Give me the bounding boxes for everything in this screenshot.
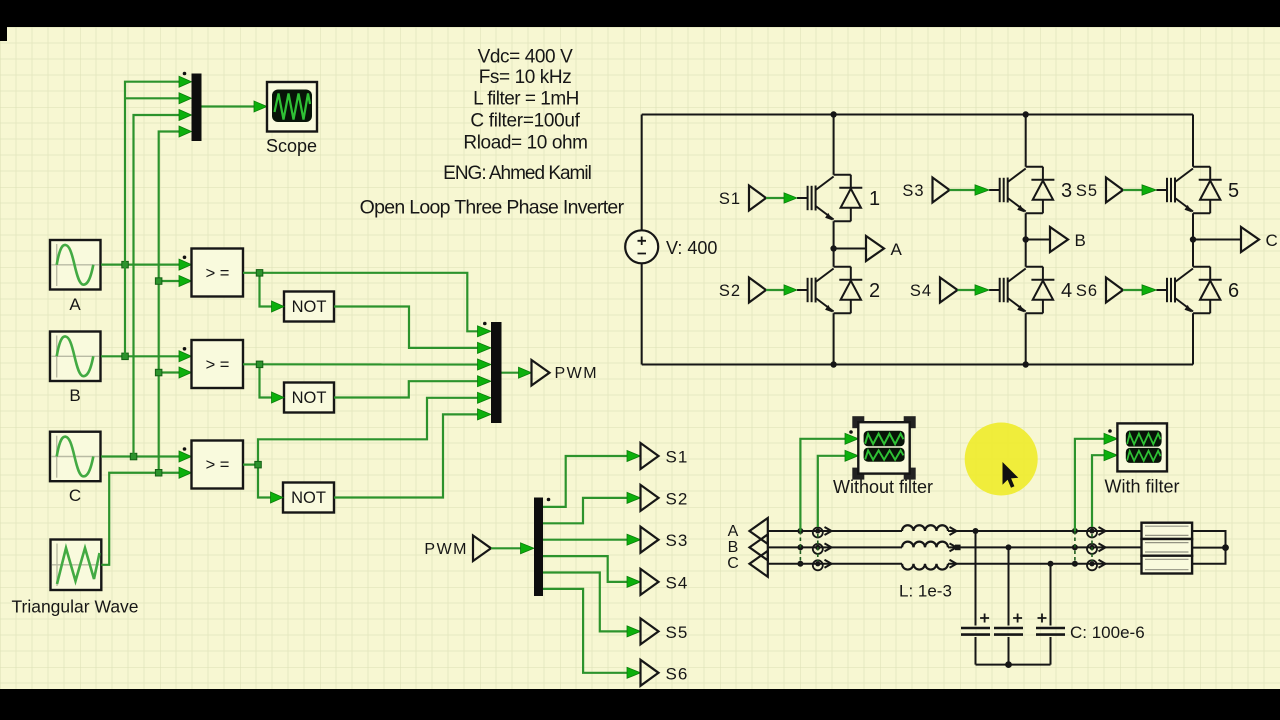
- arrowhead into demux: [521, 543, 535, 554]
- from tag S1: [749, 186, 766, 211]
- wire B output to comparator 2 input: [101, 355, 181, 357]
- ammeter probe circles right: [1087, 528, 1097, 571]
- inductor L phase A: [902, 525, 948, 531]
- capacitor C3: [1036, 628, 1065, 635]
- arrowhead into comparator 2 input 2: [179, 367, 192, 378]
- arrowhead into NOT 1: [272, 301, 285, 312]
- junction load star point: [1222, 544, 1229, 551]
- goto tag S6: [641, 660, 659, 686]
- arrowhead with-filter input 1: [1104, 433, 1117, 444]
- svg-text:NOT: NOT: [291, 489, 326, 507]
- arrowhead into scope: [254, 101, 267, 112]
- svg-text:B: B: [1075, 231, 1086, 250]
- wire demux port 5 to S5 tag: [543, 573, 628, 632]
- wire phase line C: [768, 563, 1142, 565]
- letterbox top bar: [0, 0, 1280, 27]
- DC voltage source V1: [625, 230, 658, 263]
- arrowhead S5 gate: [1142, 185, 1156, 195]
- wire comparator 1 output to mux2 input 1: [243, 273, 479, 332]
- svg-text:NOT: NOT: [292, 298, 327, 316]
- svg-text:S1: S1: [666, 448, 689, 467]
- letterbox bottom bar: [0, 689, 1280, 720]
- svg-text:Vdc= 400 V: Vdc= 400 V: [478, 47, 573, 68]
- svg-text:Rload= 10 ohm: Rload= 10 ohm: [463, 133, 587, 154]
- from tag S4: [940, 278, 958, 303]
- plus sign C3: [1038, 614, 1047, 623]
- wire load row B to star: [1192, 547, 1225, 549]
- measurement dot line B: [955, 545, 961, 551]
- svg-text:S6: S6: [1076, 282, 1098, 300]
- svg-text:S4: S4: [666, 573, 689, 592]
- wire S2 gate: [766, 289, 785, 291]
- triangular wave source block: [51, 540, 102, 591]
- arrowhead with-filter input 2: [1104, 450, 1117, 461]
- junction cap 1 tap: [973, 528, 979, 534]
- demux (gate signals): [534, 498, 543, 597]
- arrowhead into NOT 2: [272, 392, 285, 403]
- DC bus bottom rail: [642, 364, 1193, 366]
- wire source to bottom rail: [641, 263, 643, 364]
- wire probe to scope input 1 (without filter): [800, 439, 846, 531]
- svg-text:PWM: PWM: [555, 365, 599, 382]
- comparator 3 (relational operator): [192, 441, 244, 489]
- svg-text:> =: > =: [206, 264, 230, 282]
- wire node C to tag: [1193, 239, 1241, 241]
- svg-text:L filter = 1mH: L filter = 1mH: [473, 89, 579, 110]
- wire triangular wave output: [101, 473, 181, 565]
- wire S5 gate: [1123, 189, 1143, 191]
- sample time dot demux: [547, 498, 551, 502]
- transistor 1 (IGBT with diode): [797, 175, 862, 222]
- wire vertical A+B risers to mux inputs 1,2: [125, 82, 181, 357]
- svg-text:V: 400: V: 400: [666, 238, 717, 258]
- wire comparator 1 branch to NOT 1: [260, 273, 274, 307]
- inductor L phase B: [902, 542, 948, 548]
- wire PWM from tag to demux: [491, 547, 522, 549]
- wire S1 gate: [766, 197, 785, 199]
- arrowhead into NOT 3: [271, 492, 284, 503]
- wire cap 3 vertical: [1050, 564, 1052, 665]
- ammeter dashed link left: [817, 534, 819, 561]
- junction comparator 2 output: [256, 361, 263, 368]
- wire vertical C riser to mux input 3: [134, 115, 182, 457]
- wire node B to tag: [1026, 239, 1050, 241]
- svg-text:Fs= 10 kHz: Fs= 10 kHz: [479, 67, 572, 88]
- wire comparator 2 branch to NOT 2: [260, 364, 274, 397]
- from tag S3: [933, 178, 950, 203]
- arrowhead into comparator 1 input 1: [179, 259, 192, 270]
- svg-text:C filter=100uf: C filter=100uf: [470, 111, 580, 132]
- arrowhead S4 gate: [975, 285, 989, 295]
- svg-text:B: B: [728, 539, 739, 556]
- wire cap 1 vertical: [975, 531, 977, 665]
- capacitor C2: [994, 628, 1023, 635]
- comparator 1 (relational operator): [192, 249, 244, 297]
- wire comparator 3 branch to NOT 3: [258, 465, 272, 498]
- arrowhead scope input 1: [845, 433, 858, 444]
- wire load row C to star: [1192, 548, 1225, 564]
- sample time dot comparator 1: [183, 255, 187, 259]
- wire S4 gate: [958, 289, 977, 291]
- arrowhead into comparator 2 input 1: [179, 351, 192, 362]
- wire NOT 2 output to mux2 input 4: [334, 381, 479, 397]
- junction cap 3 tap: [1048, 561, 1054, 567]
- flow arrows left probes: [825, 527, 832, 568]
- svg-text:4: 4: [1061, 280, 1072, 302]
- sine source block A: [50, 240, 101, 290]
- wire cap 2 vertical: [1008, 547, 1010, 664]
- svg-text:A: A: [728, 523, 739, 540]
- wire demux port 4 to S4 tag: [543, 556, 628, 582]
- svg-text:With filter: With filter: [1104, 477, 1179, 497]
- transistor 5 (IGBT with diode): [1156, 167, 1221, 214]
- junction bottom rail leg 1: [830, 361, 836, 367]
- junction top rail leg 2: [1022, 111, 1028, 117]
- goto tag S1: [641, 443, 659, 469]
- arrowhead into S1 tag: [627, 451, 641, 462]
- junction triangle riser: [155, 470, 162, 477]
- sample time dot mux 2: [483, 322, 487, 326]
- highlight circle (cursor halo): [965, 423, 1038, 496]
- transistor 2 (IGBT with diode): [797, 267, 862, 314]
- from tag phase A (left pointing): [750, 518, 768, 544]
- svg-text:NOT: NOT: [292, 389, 327, 407]
- svg-text:> =: > =: [206, 456, 230, 474]
- node A junction: [830, 245, 836, 251]
- svg-text:S5: S5: [1076, 182, 1098, 200]
- wire capacitor star bus: [976, 664, 1051, 666]
- leg 1 vertical wires: [833, 115, 835, 365]
- wire node A to tag: [834, 248, 866, 250]
- transistor 4 (IGBT with diode): [989, 267, 1054, 314]
- from tag S6: [1106, 278, 1123, 303]
- svg-text:S4: S4: [910, 282, 932, 300]
- leg 2 vertical wires: [1025, 115, 1027, 365]
- svg-text:S2: S2: [666, 489, 689, 508]
- from tag phase B (left pointing): [750, 534, 768, 560]
- NOT gate 1: [284, 292, 334, 322]
- mouse cursor: [1003, 462, 1019, 488]
- scope without filter (selected): [852, 416, 915, 479]
- wire comparator 2 output to mux2 input 3: [243, 363, 479, 365]
- svg-text:Triangular Wave: Triangular Wave: [11, 597, 138, 617]
- svg-text:S5: S5: [666, 623, 689, 642]
- scope with filter: [1117, 423, 1167, 471]
- svg-text:C: C: [69, 486, 81, 505]
- voltmeter probe dots right: [1072, 528, 1078, 567]
- sample time dot scope with filter: [1108, 429, 1112, 433]
- scope block: [267, 82, 317, 132]
- sine source block C: [50, 432, 101, 482]
- NOT gate 3: [283, 483, 334, 513]
- svg-text:C: C: [727, 555, 739, 572]
- arrowhead S3 gate: [975, 185, 989, 195]
- junction cap 2 tap: [1006, 544, 1012, 550]
- load block R (three phase): [1142, 523, 1193, 574]
- wire phase line B: [768, 546, 1142, 548]
- leg 3 vertical wires: [1192, 115, 1194, 365]
- sine source block B: [50, 332, 101, 382]
- svg-text:3: 3: [1061, 180, 1072, 202]
- arrowhead into S6 tag: [627, 667, 641, 678]
- junction triangle branch 1: [155, 278, 162, 285]
- junction C branch: [130, 453, 137, 460]
- arrowhead into comparator 3 input 1: [179, 451, 192, 462]
- goto tag S3: [641, 527, 659, 553]
- wire load row A to star: [1192, 531, 1225, 548]
- transistor 3 (IGBT with diode): [989, 167, 1054, 214]
- sample time dot comparator 3: [183, 447, 187, 451]
- sample time dot scope without filter: [849, 430, 853, 434]
- goto tag PWM: [532, 360, 550, 386]
- voltmeter probe dots left: [797, 528, 803, 567]
- svg-text:5: 5: [1228, 180, 1239, 202]
- goto tag B: [1050, 227, 1068, 252]
- wire probe to scope input 1 (with filter): [1075, 439, 1105, 531]
- NOT gate 2: [284, 383, 334, 413]
- arrowhead into S5 tag: [627, 626, 641, 637]
- svg-text:ENG: Ahmed Kamil: ENG: Ahmed Kamil: [443, 163, 591, 184]
- wire source to top rail: [641, 115, 643, 231]
- svg-text:L: 1e-3: L: 1e-3: [899, 582, 952, 601]
- arrowhead scope input 2: [845, 450, 858, 461]
- arrowheads into mux 1 inputs: [179, 76, 192, 137]
- node B junction: [1022, 236, 1028, 242]
- plus sign C1: [980, 614, 989, 623]
- svg-text:C: 100e-6: C: 100e-6: [1070, 623, 1145, 642]
- svg-text:S1: S1: [719, 190, 741, 208]
- comparator 2 (relational operator): [192, 340, 244, 388]
- mux 2 (PWM mux): [491, 322, 502, 423]
- junction triangle branch 2: [155, 369, 162, 376]
- wire NOT 3 output to mux2 input 6: [334, 414, 479, 497]
- from tag S2: [749, 278, 766, 303]
- transistor 6 (IGBT with diode): [1156, 267, 1221, 314]
- goto tag C: [1241, 227, 1259, 252]
- arrowhead into comparator 1 input 2: [179, 276, 192, 287]
- goto tag S4: [641, 569, 659, 595]
- wire probe to scope input 2 (with filter): [1092, 455, 1105, 527]
- sample time dot mux 1: [183, 72, 187, 76]
- wire S3 gate: [950, 189, 977, 191]
- wire demux port 3 to S3 tag: [543, 539, 628, 541]
- from tag S5: [1106, 178, 1123, 203]
- flow arrows right probes: [1099, 527, 1106, 568]
- svg-text:S3: S3: [666, 531, 689, 550]
- svg-text:S6: S6: [666, 664, 689, 683]
- junction comparator 3 output: [255, 461, 261, 468]
- arrowhead S2 gate: [784, 285, 797, 295]
- arrowhead S6 gate: [1142, 285, 1156, 295]
- wire phase line A: [768, 530, 1142, 532]
- goto tag S2: [641, 485, 659, 511]
- ammeter probe circles left: [813, 528, 823, 571]
- from tag PWM: [473, 536, 491, 562]
- svg-text:S2: S2: [719, 282, 741, 300]
- goto tag S5: [641, 618, 659, 644]
- svg-text:6: 6: [1228, 280, 1239, 302]
- inductor L phase C: [902, 564, 948, 570]
- from tag phase C (left pointing): [750, 551, 768, 577]
- wire demux port 1 to S1 tag: [543, 456, 628, 507]
- wire mux input 2 stub: [125, 97, 181, 99]
- junction A branch: [122, 261, 129, 268]
- svg-text:S3: S3: [902, 182, 924, 200]
- wire probe to scope input 2 (without filter): [818, 456, 846, 527]
- ammeter dashed link right: [1091, 534, 1093, 561]
- arrowhead into S4 tag: [627, 576, 641, 587]
- capacitor C1: [961, 628, 990, 635]
- arrowhead into S2 tag: [627, 492, 641, 503]
- svg-text:B: B: [69, 386, 80, 405]
- svg-text:A: A: [891, 240, 903, 259]
- left edge notch: [0, 27, 7, 41]
- junction B branch: [122, 353, 129, 360]
- wire triangle to comparator 2 input 2: [159, 371, 181, 373]
- wire S6 gate: [1123, 289, 1143, 291]
- arrowhead into S3 tag: [627, 534, 641, 545]
- wire triangle to comparator 1 input 2: [159, 280, 181, 282]
- junction top rail leg 1: [830, 111, 836, 117]
- junction star bus: [1005, 661, 1012, 668]
- wire C output to comparator 3 input: [101, 455, 181, 457]
- svg-text:2: 2: [869, 280, 880, 302]
- sample time dot comparator 2: [183, 347, 187, 351]
- wire NOT 1 output to mux2 input 2: [334, 307, 479, 348]
- arrowhead S1 gate: [784, 193, 797, 203]
- svg-text:Open Loop Three Phase Inverter: Open Loop Three Phase Inverter: [360, 197, 625, 219]
- arrowhead into PWM goto: [519, 367, 532, 378]
- svg-text:PWM: PWM: [424, 541, 468, 558]
- wire comparator 3 output to mux2 input 5: [243, 398, 479, 465]
- wire mux 2 output to PWM goto: [502, 372, 520, 374]
- arrowheads into mux 2 inputs: [478, 326, 492, 420]
- junction bottom rail leg 2: [1022, 361, 1028, 367]
- DC bus top rail: [642, 114, 1193, 116]
- wire vertical triangle riser to mux input 4: [159, 132, 181, 473]
- svg-text:> =: > =: [206, 356, 230, 374]
- svg-text:C: C: [1266, 231, 1278, 250]
- svg-text:Without filter: Without filter: [833, 477, 933, 497]
- wire demux port 2 to S2 tag: [543, 498, 628, 523]
- voltmeter dashed link left: [799, 531, 801, 564]
- wire mux 1 to scope: [202, 105, 256, 107]
- mux 1 (scope mux): [192, 74, 202, 142]
- junction comparator 1 output: [256, 270, 263, 277]
- svg-text:Scope: Scope: [266, 136, 317, 156]
- plus sign C2: [1013, 614, 1022, 623]
- flow arrows after inductors: [950, 527, 957, 568]
- node C junction: [1190, 236, 1196, 242]
- wire A output to comparator 1 input: [101, 264, 181, 266]
- wire demux port 6 to S6 tag: [543, 589, 628, 673]
- goto tag A: [866, 236, 884, 261]
- svg-text:A: A: [69, 295, 81, 314]
- arrowhead into comparator 3 input 2: [179, 467, 192, 478]
- svg-text:1: 1: [869, 188, 880, 210]
- voltmeter dashed link right: [1074, 531, 1076, 564]
